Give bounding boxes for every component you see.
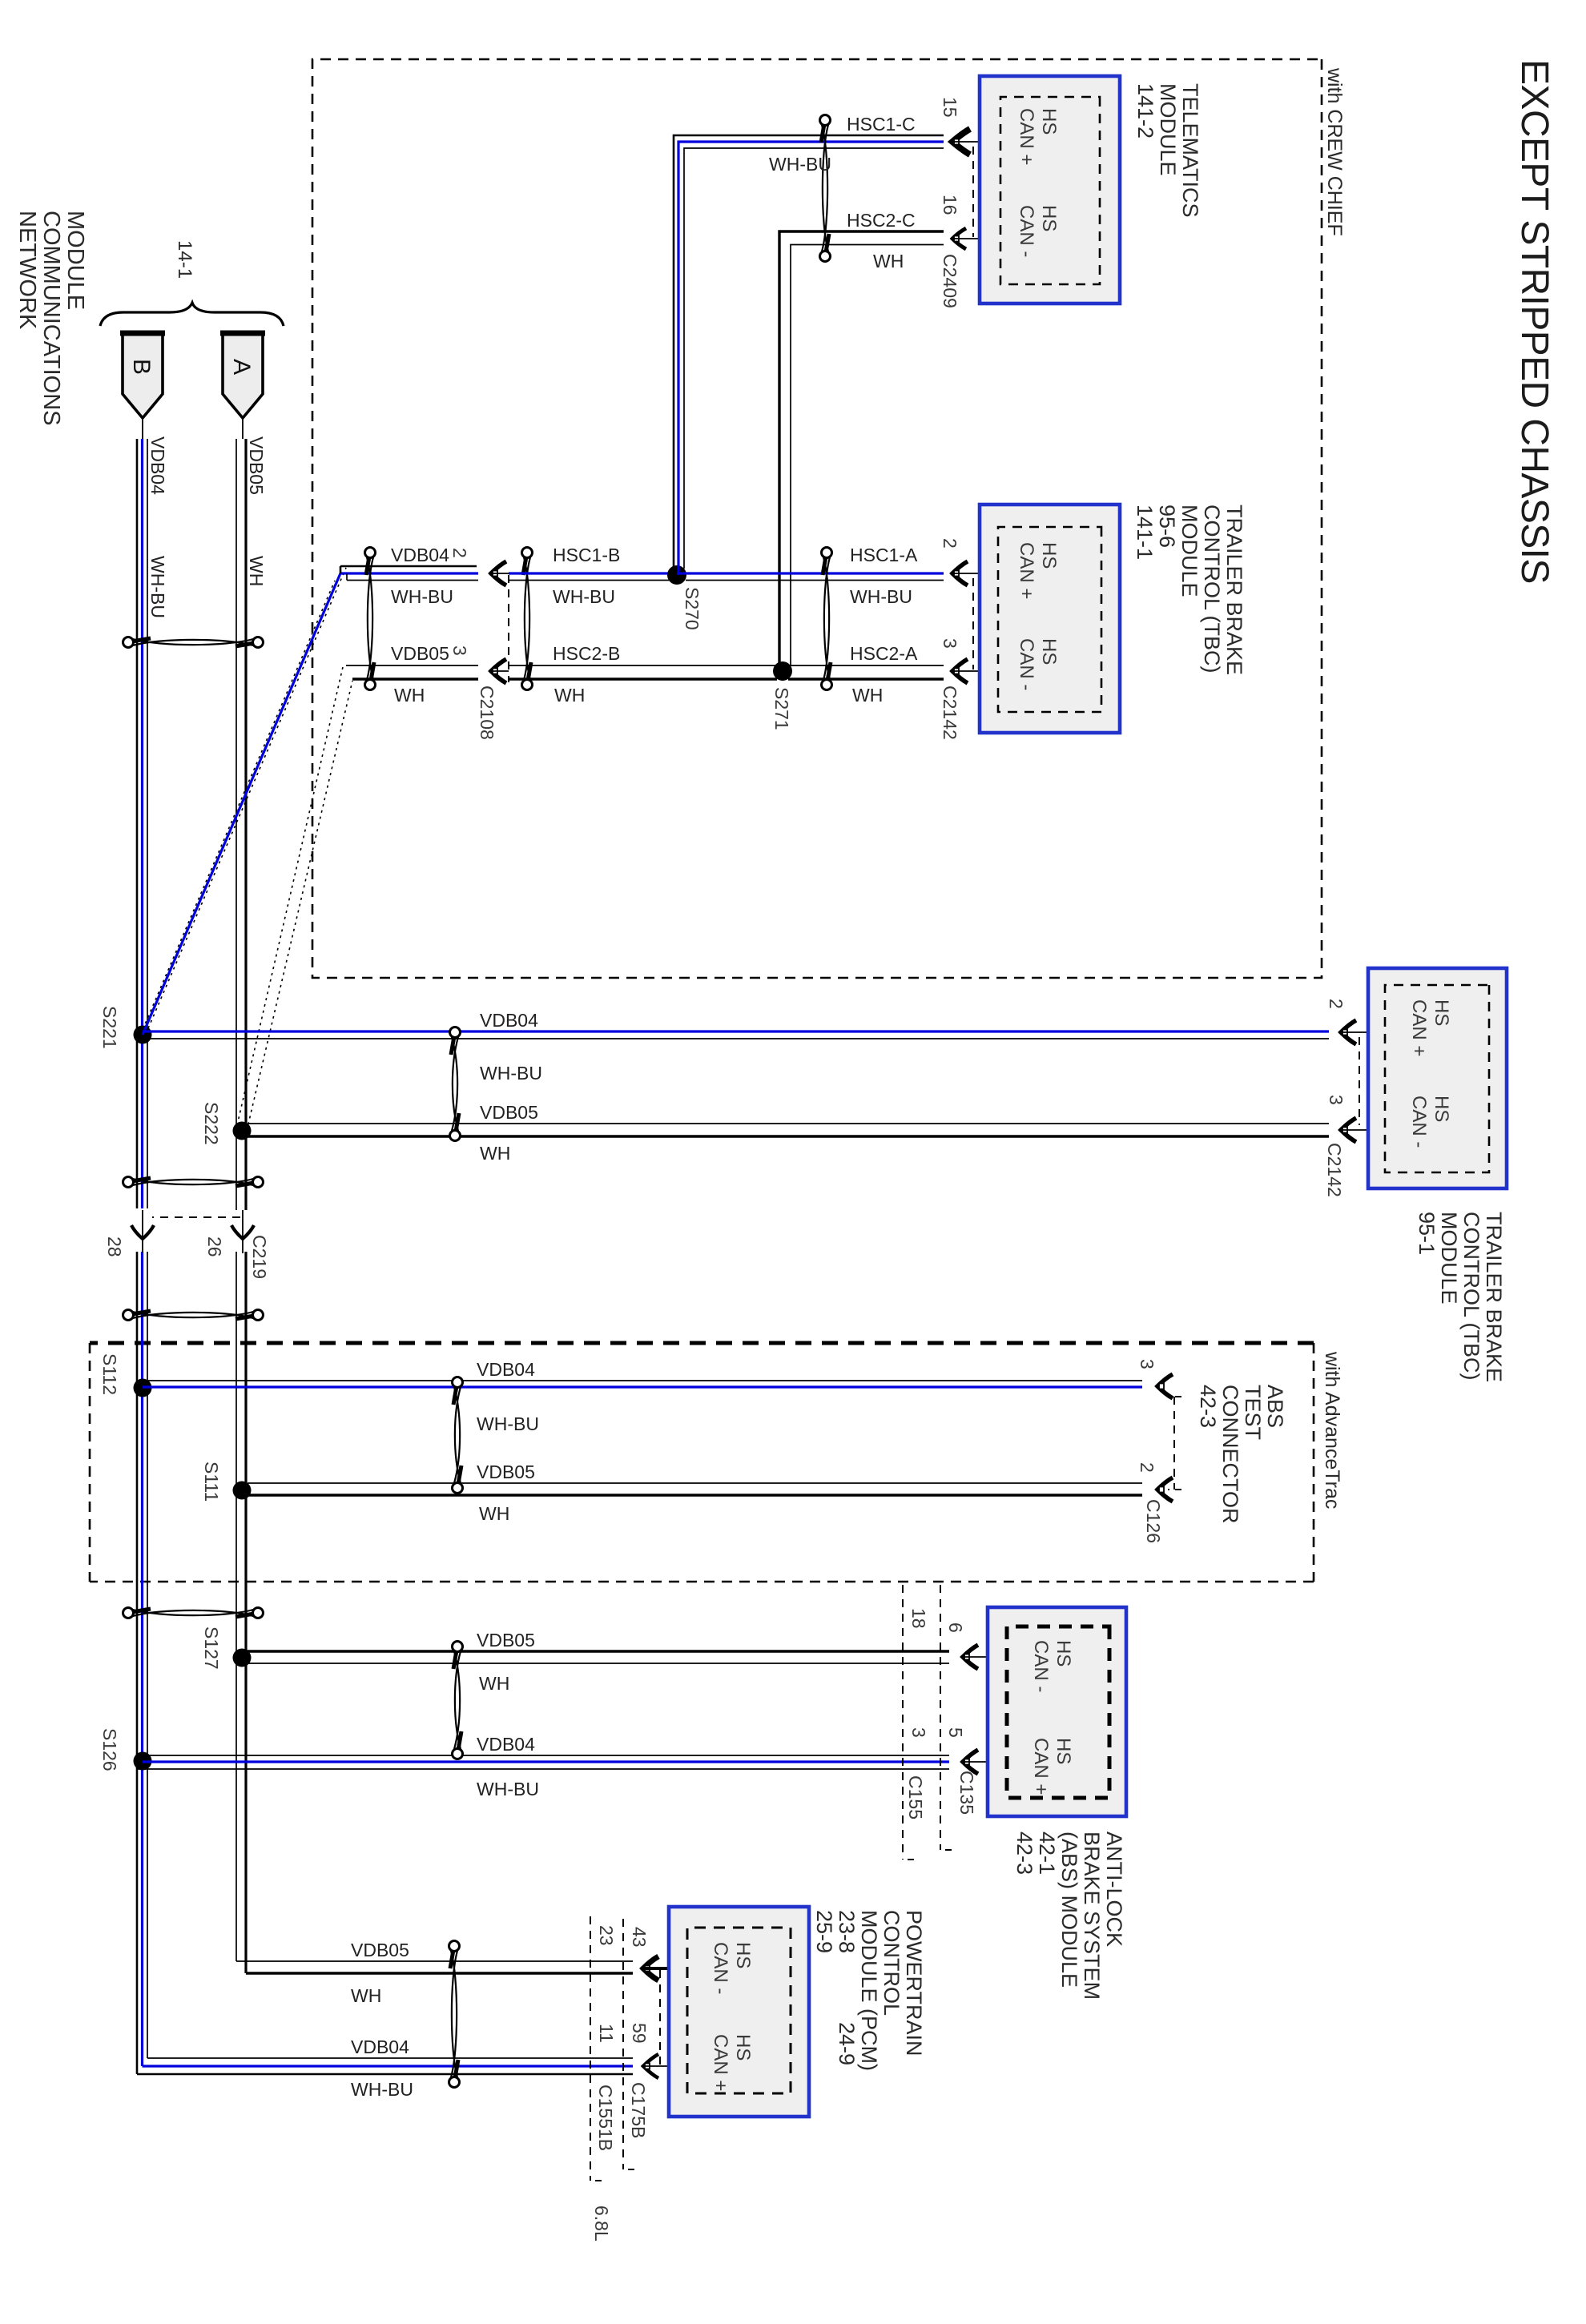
wire VDB05 branch to TBC95-1 (vertical double): [248, 1123, 1329, 1124]
wire VDB05 branch from S127 to ABS pin 6: [242, 1650, 949, 1652]
svg-text:HSC1-B: HSC1-B: [553, 545, 620, 565]
splice S111: [233, 1482, 252, 1500]
svg-text:11: 11: [596, 2024, 617, 2043]
splice S221: [134, 1026, 152, 1044]
connector C219 dashed line: [152, 1216, 240, 1218]
svg-text:25-9: 25-9: [812, 1910, 836, 1953]
svg-text:S271: S271: [771, 687, 792, 730]
connector C2142 dashed pin line: [972, 578, 974, 669]
svg-text:HS: HS: [1038, 108, 1060, 135]
svg-text:141-1: 141-1: [1133, 505, 1157, 560]
svg-text:WH-BU: WH-BU: [147, 556, 168, 618]
svg-text:WH: WH: [479, 1503, 509, 1524]
splice S271: [773, 661, 792, 681]
svg-text:HSC2-B: HSC2-B: [553, 643, 620, 664]
svg-text:C126: C126: [1143, 1499, 1164, 1543]
svg-text:HS: HS: [732, 2034, 754, 2061]
svg-text:2: 2: [940, 538, 960, 549]
svg-text:95-1: 95-1: [1415, 1212, 1439, 1255]
svg-text:CONTROL (TBC): CONTROL (TBC): [1200, 505, 1224, 673]
twisted-pair symbol (bus): [253, 1608, 264, 1618]
connector C135 dashed line: [940, 1585, 941, 1850]
svg-text:23-8: 23-8: [835, 1910, 859, 1953]
svg-text:WH: WH: [554, 685, 585, 706]
svg-text:42-1: 42-1: [1035, 1831, 1059, 1875]
connector C155 dashed line: [902, 1585, 904, 1860]
svg-text:C2142: C2142: [1324, 1143, 1345, 1197]
svg-text:S126: S126: [99, 1728, 120, 1771]
wire VDB05 riser to PCM pin 43: [236, 1960, 633, 1962]
svg-text:3: 3: [908, 1727, 929, 1738]
twisted-pair symbol (PCM branch): [449, 1941, 460, 1952]
splice S222: [233, 1122, 252, 1140]
svg-text:VDB05: VDB05: [477, 1462, 535, 1482]
svg-text:HS: HS: [1053, 1640, 1074, 1667]
wire VDB04 riser to PCM pin 59: [147, 2057, 633, 2059]
svg-text:26: 26: [204, 1236, 225, 1257]
svg-text:6: 6: [945, 1622, 966, 1633]
svg-text:HS: HS: [732, 1942, 754, 1968]
svg-text:C175B: C175B: [628, 2082, 649, 2138]
svg-text:MODULE (PCM): MODULE (PCM): [857, 1910, 881, 2071]
svg-text:WH-BU: WH-BU: [351, 2079, 413, 2100]
svg-text:24-9: 24-9: [835, 2022, 859, 2065]
svg-text:TRAILER BRAKE: TRAILER BRAKE: [1482, 1212, 1506, 1382]
connector C219 breaks: [133, 1210, 152, 1252]
svg-text:MODULE: MODULE: [62, 211, 88, 310]
svg-text:2: 2: [1137, 1462, 1157, 1473]
svg-text:C1551B: C1551B: [595, 2085, 616, 2151]
svg-text:CAN +: CAN +: [710, 2034, 731, 2091]
svg-text:CAN +: CAN +: [1030, 1738, 1052, 1795]
connector C2142 dashed pin line (TBC95-1): [1359, 1037, 1360, 1125]
svg-text:CAN +: CAN +: [1408, 999, 1430, 1056]
dashed group box: with AdvanceTrac: [90, 1341, 1314, 1345]
wire HSC2-B vertical (C2108 to S271): double black: [509, 665, 783, 666]
module POWERTRAIN CONTROL MODULE (PCM): [669, 1907, 809, 2117]
twisted-pair symbol (below C2108): [365, 548, 376, 558]
twisted-pair symbol (bus): [253, 637, 264, 648]
svg-text:WH-BU: WH-BU: [769, 154, 831, 175]
module TRAILER BRAKE CONTROL (TBC) MODULE 95-1: [1368, 968, 1507, 1188]
svg-text:WH: WH: [480, 1143, 510, 1164]
svg-text:CAN -: CAN -: [1016, 638, 1037, 690]
svg-text:MODULE: MODULE: [1177, 505, 1202, 597]
svg-text:VDB05: VDB05: [246, 436, 267, 495]
svg-text:VDB05: VDB05: [391, 643, 449, 664]
svg-text:CAN -: CAN -: [1030, 1640, 1052, 1692]
svg-text:WH-BU: WH-BU: [553, 586, 615, 607]
svg-text:C2409: C2409: [940, 254, 960, 308]
twisted-pair symbol (AdvanceTrac branch): [453, 1377, 463, 1388]
module TELEMATICS MODULE 141-2: [980, 76, 1120, 304]
svg-text:S222: S222: [201, 1102, 222, 1145]
connector C175B dashed line: [622, 1919, 624, 2169]
svg-text:3: 3: [449, 645, 470, 656]
svg-text:S111: S111: [201, 1462, 222, 1502]
module ANTI-LOCK BRAKE SYSTEM (ABS) MODULE: [988, 1607, 1126, 1816]
wire bus VDB04 (WH-BU) : triple line: [147, 439, 148, 2058]
svg-text:S270: S270: [682, 587, 702, 630]
svg-text:HS: HS: [1038, 205, 1060, 231]
svg-text:42-3: 42-3: [1196, 1385, 1220, 1428]
twisted-pair symbol (telematics pair): [820, 115, 831, 126]
svg-text:WH-BU: WH-BU: [477, 1413, 539, 1434]
svg-text:VDB04: VDB04: [391, 545, 449, 565]
svg-text:VDB04: VDB04: [480, 1010, 538, 1031]
svg-text:CONTROL: CONTROL: [880, 1910, 904, 2016]
svg-text:6.8L: 6.8L: [591, 2205, 612, 2242]
module TRAILER BRAKE CONTROL (TBC) MODULE 141-1: [980, 505, 1120, 733]
svg-text:BRAKE SYSTEM: BRAKE SYSTEM: [1080, 1831, 1104, 2000]
wire VDB05 branch from S111 to C126 pin 2: [248, 1482, 1142, 1484]
svg-text:C2142: C2142: [940, 686, 960, 740]
wire HSC1-B vertical (C2108 to S270): blue+black: [509, 572, 677, 574]
svg-text:B: B: [128, 359, 155, 375]
wire HSC1-A vertical (S270 to C2142): blue+black: [677, 572, 944, 574]
svg-text:WH-BU: WH-BU: [477, 1779, 539, 1799]
twisted-pair symbol (TBC95-1 branch): [450, 1027, 461, 1038]
svg-text:HSC2-A: HSC2-A: [850, 643, 918, 664]
svg-text:HSC1-C: HSC1-C: [847, 114, 916, 135]
splice S127: [233, 1649, 252, 1667]
wire diagonal VDB05 from S222 to branch corner (dotted pair): [247, 681, 352, 1131]
svg-text:2: 2: [449, 548, 470, 558]
svg-text:141-2: 141-2: [1133, 83, 1157, 139]
svg-text:WH: WH: [852, 685, 883, 706]
svg-text:WH-BU: WH-BU: [850, 586, 912, 607]
svg-text:HS: HS: [1431, 999, 1452, 1026]
svg-text:23: 23: [596, 1925, 617, 1946]
svg-text:3: 3: [1137, 1359, 1157, 1369]
connector C126 arrow pin 2: [1157, 1478, 1173, 1502]
svg-text:CONTROL (TBC): CONTROL (TBC): [1459, 1212, 1483, 1381]
svg-text:WH-BU: WH-BU: [391, 586, 453, 607]
wire VDB05 branch vertical (below C2108): [346, 665, 478, 666]
svg-text:28: 28: [104, 1236, 125, 1257]
svg-text:HS: HS: [1038, 542, 1060, 569]
svg-text:HS: HS: [1431, 1096, 1452, 1122]
svg-text:CAN -: CAN -: [1016, 205, 1037, 257]
wire riser S271 to HSC2-C (L-shaped pair): [779, 231, 944, 671]
svg-text:WH: WH: [246, 556, 267, 586]
svg-text:43: 43: [629, 1927, 650, 1948]
svg-text:VDB05: VDB05: [477, 1630, 535, 1651]
svg-text:S112: S112: [99, 1353, 120, 1395]
svg-text:WH-BU: WH-BU: [480, 1063, 542, 1084]
connector B (pentagon): [123, 333, 163, 418]
svg-text:WH: WH: [351, 1985, 381, 2006]
svg-text:2: 2: [1326, 999, 1346, 1009]
svg-text:HSC2-C: HSC2-C: [847, 210, 916, 231]
svg-text:WH: WH: [479, 1673, 509, 1694]
wire VDB04 branch to TBC95-1 (vertical blue+black): [143, 1030, 1329, 1032]
wire VDB04 branch vertical (below C2108): black/blue/black: [340, 565, 477, 568]
svg-text:TEST: TEST: [1241, 1385, 1265, 1440]
svg-text:HSC1-A: HSC1-A: [850, 545, 918, 565]
svg-text:COMMUNICATIONS: COMMUNICATIONS: [38, 211, 64, 426]
svg-text:VDB04: VDB04: [477, 1734, 535, 1755]
twisted-pair symbol (ABS branch): [453, 1642, 463, 1652]
svg-text:VDB05: VDB05: [480, 1102, 538, 1123]
svg-text:15: 15: [940, 97, 960, 118]
twisted-pair symbol (bus, at C219): [253, 1177, 264, 1188]
svg-text:59: 59: [629, 2023, 650, 2044]
svg-text:VDB04: VDB04: [351, 2037, 409, 2057]
svg-text:C2108: C2108: [477, 686, 497, 740]
wire corner joints at branch corner: [340, 566, 342, 573]
svg-text:CONNECTOR: CONNECTOR: [1218, 1385, 1242, 1524]
connector C2108 dashed line: [508, 575, 509, 682]
twisted-pair symbol (before C2142): [822, 548, 832, 558]
svg-text:CAN +: CAN +: [1016, 108, 1037, 165]
svg-text:95-6: 95-6: [1155, 505, 1179, 548]
svg-text:C155: C155: [905, 1775, 926, 1819]
svg-text:POWERTRAIN: POWERTRAIN: [902, 1910, 926, 2057]
svg-text:42-3: 42-3: [1012, 1831, 1037, 1875]
svg-text:C219: C219: [249, 1235, 270, 1279]
svg-text:WH: WH: [873, 251, 904, 271]
svg-text:16: 16: [940, 195, 960, 215]
svg-text:A: A: [228, 359, 255, 375]
svg-text:18: 18: [908, 1608, 929, 1629]
svg-text:TRAILER BRAKE: TRAILER BRAKE: [1222, 505, 1246, 675]
svg-text:3: 3: [1326, 1095, 1346, 1105]
wire riser S270 to HSC1-C (L-shaped triple): [674, 135, 944, 575]
wire VDB04 branch from S126 to ABS pin 5: [148, 1755, 949, 1756]
svg-text:VDB04: VDB04: [477, 1359, 535, 1380]
svg-text:14-1: 14-1: [174, 240, 195, 279]
svg-text:CAN -: CAN -: [1408, 1096, 1430, 1148]
wire stub from B: [142, 418, 143, 439]
svg-text:C135: C135: [956, 1771, 977, 1815]
svg-text:(ABS) MODULE: (ABS) MODULE: [1057, 1831, 1081, 1988]
splice S270: [667, 565, 686, 585]
wire stub from A: [242, 418, 244, 439]
twisted-pair symbol (above C2108): [522, 548, 533, 558]
dashed group box: with CREW CHIEF: [312, 59, 1322, 978]
wire diagonal VDB04 from S221 to branch corner (blue solid + dotted flanks): [143, 573, 340, 1035]
connector C2142 arrows at TBC 95-1: [1341, 1020, 1356, 1044]
svg-text:CAN +: CAN +: [1016, 542, 1037, 599]
svg-text:VDB04: VDB04: [147, 436, 168, 495]
svg-text:HS: HS: [1053, 1738, 1074, 1764]
connector C175B arrow pin 43 (thick): [643, 1956, 658, 1980]
svg-text:HS: HS: [1038, 638, 1060, 665]
splice S112: [134, 1379, 152, 1397]
svg-text:with CREW CHIEF: with CREW CHIEF: [1323, 67, 1346, 236]
wire bus VDB05 (WH) : double line: [244, 439, 247, 1973]
svg-text:ABS: ABS: [1263, 1385, 1287, 1428]
wire VDB04 branch from S112 to C126 pin 3: [148, 1380, 1142, 1381]
svg-text:with AdvanceTrac: with AdvanceTrac: [1321, 1351, 1343, 1509]
connector C135 arrows at ABS: [963, 1645, 978, 1669]
svg-text:TELEMATICS: TELEMATICS: [1178, 83, 1202, 218]
svg-text:VDB05: VDB05: [351, 1940, 409, 1960]
svg-text:S221: S221: [99, 1006, 120, 1049]
connector C1551B dashed line: [590, 1916, 591, 2181]
brace 14-1 over connectors A and B: [100, 303, 284, 326]
svg-text:5: 5: [945, 1727, 966, 1738]
svg-text:MODULE: MODULE: [1437, 1212, 1461, 1305]
svg-text:ANTI-LOCK: ANTI-LOCK: [1102, 1831, 1126, 1947]
connector C126 dashed bracket: [1168, 1396, 1181, 1397]
connector C126 arrow pin 3: [1157, 1374, 1173, 1398]
connector dashed pin line (PCM): [659, 1970, 661, 2066]
svg-text:CAN -: CAN -: [710, 1942, 731, 1994]
connector C2142 arrows at TBC 141-1: [952, 561, 968, 585]
wire HSC2-A vertical (S271 to C2142): double black: [783, 665, 944, 666]
svg-text:NETWORK: NETWORK: [14, 211, 40, 330]
connector C2409 dashed pin line: [972, 147, 974, 237]
connector C2108 arrows: [491, 561, 506, 585]
splice S126: [134, 1752, 152, 1771]
twisted-pair symbol (bus): [253, 1310, 264, 1321]
connector C175B arrow pin 59: [643, 2054, 658, 2078]
connector C219 pin 28 (bus B): [135, 1208, 149, 1213]
svg-text:WH: WH: [394, 685, 425, 706]
connector C2409 arrows at telematics: [952, 129, 970, 155]
svg-text:MODULE: MODULE: [1156, 83, 1180, 176]
svg-text:EXCEPT STRIPPED CHASSIS: EXCEPT STRIPPED CHASSIS: [1513, 59, 1556, 584]
svg-text:3: 3: [940, 638, 960, 649]
connector A (pentagon): [223, 333, 263, 418]
svg-text:S127: S127: [201, 1626, 222, 1670]
